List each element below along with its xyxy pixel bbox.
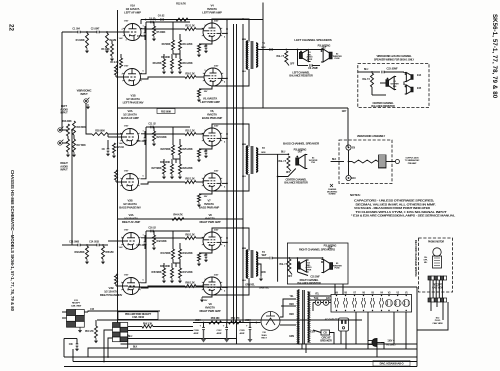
wire filament box drops to ac buses xyxy=(355,312,357,344)
wire V10 heater to T4 xyxy=(280,324,296,326)
resistor R51 170 xyxy=(228,321,241,324)
wire to output jack xyxy=(386,161,395,163)
vibrasonic input jack xyxy=(84,98,90,104)
capacitor C8 470 xyxy=(107,148,110,150)
wire V4 top cap xyxy=(211,20,213,24)
wire screen to bus lower xyxy=(222,182,227,184)
resistor grid stopper 1.2K upper xyxy=(185,237,196,240)
wire right input riser joins xyxy=(71,244,73,246)
svg-text:RIGHT PWR AMP: RIGHT PWR AMP xyxy=(200,220,221,224)
resistor R5 180K xyxy=(153,26,156,36)
wire speaker bus xyxy=(286,49,323,51)
resistor R41 560K xyxy=(172,249,175,259)
capacitor C30 xyxy=(76,343,79,345)
resistor R9 560K xyxy=(172,40,175,50)
svg-text:C11 .02: C11 .02 xyxy=(148,123,156,126)
resistor divider c xyxy=(179,164,182,174)
svg-text:GRN: GRN xyxy=(261,47,266,49)
svg-text:C2 .0047: C2 .0047 xyxy=(91,28,100,31)
svg-text:250V: 250V xyxy=(195,319,201,322)
svg-text:LEFT PWR AMP: LEFT PWR AMP xyxy=(202,11,222,15)
svg-text:C1 .004: C1 .004 xyxy=(72,28,80,31)
wire E13 leads xyxy=(62,311,67,313)
svg-text:RIGHT PHASE INV: RIGHT PHASE INV xyxy=(100,293,123,297)
box right channel speakers xyxy=(287,243,348,284)
svg-text:C16 .02: C16 .02 xyxy=(148,227,156,230)
wire E1 feed xyxy=(297,50,299,66)
svg-text:R2 2M: R2 2M xyxy=(110,39,117,42)
resistor power cathode upper xyxy=(199,250,212,253)
svg-text:TO VIBRASONIC: TO VIBRASONIC xyxy=(405,159,420,162)
svg-text:R23 560K: R23 560K xyxy=(160,148,170,151)
svg-text:FUSE: FUSE xyxy=(335,268,341,270)
resistor divider a xyxy=(163,268,166,278)
capacitor coupling C11 .02 xyxy=(150,126,152,129)
svg-text:BASS PHASE INV: BASS PHASE INV xyxy=(119,206,141,210)
svg-text:BAL 7.5: BAL 7.5 xyxy=(362,78,370,81)
svg-text:C23 .05MF: C23 .05MF xyxy=(386,68,398,71)
phono motor symbol xyxy=(433,248,441,256)
connector preamp power recept xyxy=(113,323,128,342)
sockets V3 V2 V1 twin triode xyxy=(386,300,393,307)
resistor R24 180K xyxy=(153,131,156,141)
capacitor coupling C16 .02 xyxy=(150,230,152,233)
wire inverter outputs xyxy=(173,262,180,264)
svg-text:R29 220K: R29 220K xyxy=(183,167,193,170)
terminal E9 xyxy=(346,145,351,150)
svg-text:BLK: BLK xyxy=(332,159,337,161)
resistor R1 180K xyxy=(86,33,89,48)
svg-text:22: 22 xyxy=(8,24,15,31)
svg-text:BALANCE RESISTOR: BALANCE RESISTOR xyxy=(284,181,308,184)
svg-text:BRN: BRN xyxy=(242,144,247,146)
svg-text:315V: 315V xyxy=(214,171,219,173)
svg-text:SPEAKER WIRING FOR SK56-1 ONLY: SPEAKER WIRING FOR SK56-1 ONLY xyxy=(374,59,415,62)
svg-text:SPKR: SPKR xyxy=(307,59,313,61)
svg-text:1.4V: 1.4V xyxy=(119,37,124,40)
resistor right balance 7.5 xyxy=(288,259,291,271)
power transformer T4 xyxy=(298,290,300,344)
svg-text:170V: 170V xyxy=(124,275,129,277)
svg-text:OUTPUT JACK: OUTPUT JACK xyxy=(405,157,419,160)
svg-text:LEFT AF AMP: LEFT AF AMP xyxy=(124,11,141,15)
svg-text:170V: 170V xyxy=(124,66,129,68)
svg-text:R17 500K: R17 500K xyxy=(77,145,87,147)
svg-text:CB: CB xyxy=(323,332,327,335)
wire plate to output transformer lower xyxy=(213,190,231,192)
wire inverter cathode to power grid xyxy=(141,182,186,184)
wire tweeters xyxy=(403,71,405,73)
box filament wiring xyxy=(331,295,412,313)
svg-text:AC OUTLET: AC OUTLET xyxy=(325,319,339,322)
jack right audio input xyxy=(58,140,64,146)
output jack circle xyxy=(395,160,399,164)
tube V1B 1/2 12AX7A left phase inv xyxy=(122,69,141,86)
capacitor secondary xyxy=(269,48,271,51)
wire plate to output transformer upper xyxy=(212,124,249,147)
svg-text:INPUT: INPUT xyxy=(60,111,68,115)
phono recept connector xyxy=(428,276,447,280)
svg-text:BALANCE RESISTOR: BALANCE RESISTOR xyxy=(297,282,321,285)
dashed box phono motor xyxy=(419,238,453,292)
capacitor C3 .0047 xyxy=(144,32,147,34)
svg-text:VOLTAGES - MEASURED FROM POINT: VOLTAGES - MEASURED FROM POINT INDICATED xyxy=(354,206,430,210)
svg-text:40MF: 40MF xyxy=(217,332,223,335)
svg-text:SCREW: SCREW xyxy=(329,194,336,196)
resistor R42 180K xyxy=(153,235,156,245)
svg-text:GRY: GRY xyxy=(342,111,347,113)
resistor R11 220K xyxy=(179,40,182,50)
svg-text:BLU: BLU xyxy=(242,280,246,282)
wire bottom bus y357 xyxy=(64,356,417,358)
svg-text:R68 1.2K: R68 1.2K xyxy=(185,282,195,285)
resistor power cathode upper xyxy=(199,146,212,149)
wire phase inv grid xyxy=(116,285,124,287)
wire bass junction to vibrasonic xyxy=(287,153,289,155)
wire plate to output transformer upper xyxy=(212,19,249,42)
svg-text:BLU: BLU xyxy=(128,336,133,338)
resistor phase inv grid xyxy=(115,274,118,284)
wire top B+ rail xyxy=(141,19,263,21)
tube V3A 1/2 12AX7A right AF amp xyxy=(121,233,140,250)
ground E13 xyxy=(79,328,81,331)
resistor divider b xyxy=(171,268,174,278)
svg-text:R45 680K: R45 680K xyxy=(151,271,161,274)
wire T4 primary down xyxy=(301,344,303,349)
dashed box vibrasonic assembly xyxy=(339,140,392,184)
resistor bass balance 7.5 xyxy=(287,156,290,168)
resistor grid stopper 1.2K upper xyxy=(185,133,196,136)
capacitor C13 .0068 xyxy=(77,244,79,247)
svg-text:BLK: BLK xyxy=(133,347,138,349)
wire vertical bus x118 xyxy=(117,10,119,323)
wire E12 to bus xyxy=(417,302,448,330)
svg-text:INPUT: INPUT xyxy=(80,92,88,96)
svg-text:R42 180K: R42 180K xyxy=(157,240,167,243)
svg-text:R47 220K: R47 220K xyxy=(183,271,193,274)
wire T3 secondary to right speakers xyxy=(257,257,269,259)
svg-text:R8 220K: R8 220K xyxy=(153,62,162,65)
svg-text:PHONO MOTOR: PHONO MOTOR xyxy=(428,242,444,244)
svg-text:BASS PWR AMP: BASS PWR AMP xyxy=(199,206,219,210)
svg-text:R50 1.2K: R50 1.2K xyxy=(185,73,195,76)
svg-text:BLU: BLU xyxy=(242,71,246,73)
jack left audio input xyxy=(58,127,64,133)
110V AC plug xyxy=(368,339,381,347)
capacitor C10 .0047 xyxy=(144,137,147,139)
tube V3B 1/2 12AX7A right phase inv xyxy=(121,278,140,295)
svg-text:VIBRASONIC ASSEMBLY: VIBRASONIC ASSEMBLY xyxy=(357,134,386,138)
capacitor C14 .0015 xyxy=(96,244,98,247)
vibrasonic drive spring coil xyxy=(352,160,378,163)
capacitor C2 .0047 xyxy=(96,31,98,34)
wire plug to buses xyxy=(381,343,384,350)
svg-text:R1 180K: R1 180K xyxy=(76,39,85,42)
svg-text:CAB. VIEW: CAB. VIEW xyxy=(71,304,82,307)
svg-text:CAPACITORS - UNLESS OTHERWISE: CAPACITORS - UNLESS OTHERWISE SPECIFIED, xyxy=(354,199,435,203)
wire phase inv grid xyxy=(116,76,124,78)
wire plug drop xyxy=(376,347,378,358)
svg-text:1.4V: 1.4V xyxy=(119,246,124,249)
speaker E5 tweeter xyxy=(321,260,332,273)
svg-text:BLU: BLU xyxy=(281,151,286,153)
resistor divider c xyxy=(179,268,182,278)
svg-text:1.4V: 1.4V xyxy=(119,142,124,145)
svg-text:BALANCE RESISTOR: BALANCE RESISTOR xyxy=(289,74,313,77)
right balance OFF arrow xyxy=(289,271,292,275)
resistor R2 2M xyxy=(106,33,109,48)
junction dots top rail xyxy=(145,19,147,21)
wire feedback line y108 to vibrasonic xyxy=(118,107,349,109)
svg-text:C19C: C19C xyxy=(217,330,223,332)
vibrasonic transducer coil xyxy=(379,155,387,168)
wire bottom-left corner risers xyxy=(63,344,65,357)
svg-text:260V: 260V xyxy=(245,319,251,322)
tube V10 5U4G rectifier xyxy=(261,312,280,331)
wire vertical bus x236.5 xyxy=(236,24,238,344)
connector E12 plug xyxy=(428,298,447,302)
terminal E10 xyxy=(346,175,351,180)
compression lamps E19 E20 xyxy=(315,300,321,306)
label diagram number xyxy=(373,361,410,367)
resistor grid stopper 1.2K lower xyxy=(185,76,196,79)
svg-text:FUSE: FUSE xyxy=(335,58,341,60)
speaker E14 tweeter xyxy=(405,73,413,82)
resistor R43 220K xyxy=(179,249,182,259)
wire T3 ground GRN xyxy=(257,264,261,276)
svg-text:BREAKER: BREAKER xyxy=(320,340,332,343)
svg-text:R33 280K: R33 280K xyxy=(74,251,84,254)
resistor R56 3.3K xyxy=(142,325,153,328)
wire plate coupling xyxy=(141,22,146,29)
wires preamp to bottom buses xyxy=(104,330,113,362)
svg-text:R54 4.7K: R54 4.7K xyxy=(85,330,94,333)
speaker E3 woofer xyxy=(296,155,308,169)
resistor power cathode upper xyxy=(199,41,212,44)
tube V1A 1/2 12AX7A left AF amp xyxy=(123,24,142,41)
resistor R20 560K vibrasonic feed xyxy=(92,133,108,136)
wire screen to bus lower xyxy=(222,77,227,79)
svg-text:R25 220K: R25 220K xyxy=(183,148,193,151)
wire T4 secondary YEL to heater box xyxy=(309,295,331,297)
wire E13 to preamp line y311 xyxy=(88,311,160,312)
svg-text:C19B: C19B xyxy=(194,330,200,332)
tube V4 6V6GTA left power amp xyxy=(202,23,222,41)
resistor R35 2M xyxy=(102,246,105,259)
svg-text:R5 180K: R5 180K xyxy=(157,31,166,34)
label chassis mounting screw xyxy=(330,184,333,187)
wire inverter plate to power grid xyxy=(141,29,186,74)
svg-text:RIGHT AF AMP: RIGHT AF AMP xyxy=(122,220,140,224)
svg-text:PRE-AMP: PRE-AMP xyxy=(408,162,417,165)
wire vertical supply bus x263 upper xyxy=(262,3,264,109)
resistor R17 500K xyxy=(67,139,70,152)
circuit breaker xyxy=(321,330,330,335)
wire screen to bus lower xyxy=(222,286,227,288)
svg-text:OFF: OFF xyxy=(288,276,293,278)
svg-text:LEFT PHASE INV: LEFT PHASE INV xyxy=(123,101,144,105)
speaker E15 tweeter xyxy=(405,85,413,94)
svg-text:C4 .02: C4 .02 xyxy=(158,15,165,18)
svg-text:BALANCE RESISTOR: BALANCE RESISTOR xyxy=(371,105,395,108)
resistor divider c xyxy=(179,59,182,69)
wire vertical B+ bus x243 xyxy=(242,24,244,323)
wire E4 C,1MF xyxy=(297,258,299,272)
svg-text:BRN: BRN xyxy=(242,248,247,250)
svg-text:C14 .0015: C14 .0015 xyxy=(89,241,100,244)
svg-text:R51 170: R51 170 xyxy=(231,317,240,320)
capacitor right secondary xyxy=(269,257,271,260)
svg-text:170V: 170V xyxy=(124,126,129,128)
wire bottom bus y366.5 xyxy=(64,366,417,368)
wire vertical screen bus x227 xyxy=(226,20,228,323)
svg-text:R44 4.7K: R44 4.7K xyxy=(173,214,183,217)
speaker E1 mid-audio xyxy=(300,50,311,62)
svg-text:R10 220K: R10 220K xyxy=(183,62,193,65)
wire plate to output transformer lower xyxy=(213,85,231,87)
svg-text:RECEPT: RECEPT xyxy=(433,284,443,287)
svg-text:170V: 170V xyxy=(124,171,129,173)
box label pre amp pwr recept xyxy=(118,312,158,320)
svg-text:R13 1.2K: R13 1.2K xyxy=(185,25,195,28)
wire screen to bus upper xyxy=(222,241,227,243)
svg-text:DOT: DOT xyxy=(298,152,303,154)
svg-text:WHT: WHT xyxy=(262,255,268,257)
svg-text:CAB. VIEW: CAB. VIEW xyxy=(432,322,443,325)
wire vibrasonic input to grid xyxy=(86,103,92,134)
svg-text:BASS CHANNEL SPEAKER: BASS CHANNEL SPEAKER xyxy=(283,142,320,146)
resistor phase inv grid xyxy=(115,170,118,180)
resistor SK56 balance 7.5 xyxy=(371,73,374,87)
wire vibrasonic internal xyxy=(348,150,350,161)
socket heaters V9-V4 xyxy=(334,298,335,308)
svg-text:R4 2.2K: R4 2.2K xyxy=(110,61,118,64)
svg-text:CAB. VIEW: CAB. VIEW xyxy=(132,316,145,319)
svg-text:GRN: GRN xyxy=(261,272,266,274)
svg-text:RECT: RECT xyxy=(261,338,267,340)
svg-text:R6 100K: R6 100K xyxy=(161,56,170,59)
svg-text:NOTES:: NOTES: xyxy=(350,193,361,197)
svg-text:R63 1.2K: R63 1.2K xyxy=(185,234,195,237)
resistor grid stopper 1.2K lower xyxy=(185,285,196,288)
wire screen to bus upper xyxy=(222,137,227,139)
svg-text:R21 1K: R21 1K xyxy=(117,146,125,149)
capacitor C1 .004 xyxy=(77,31,79,34)
svg-text:* E19 & E20 ARE COMPRESSION LA: * E19 & E20 ARE COMPRESSION LAMPS - SEE … xyxy=(351,214,456,218)
capacitor C23 .05MF xyxy=(372,71,380,73)
svg-text:CHASSIS HS-868 SCHEMATIC—MODEL: CHASSIS HS-868 SCHEMATIC—MODELS SK56-1, … xyxy=(10,170,15,312)
svg-text:C19D: C19D xyxy=(240,330,246,332)
wire left input riser x62 xyxy=(61,32,63,130)
capacitor power cathode upper xyxy=(205,254,208,256)
resistor R54 4.7K xyxy=(95,326,98,338)
wire inverter outputs xyxy=(173,53,180,55)
wire lamps to box xyxy=(321,302,323,304)
resistor power cathode lower xyxy=(202,295,212,297)
svg-text:BASS AF AMP: BASS AF AMP xyxy=(121,116,139,120)
svg-text:315V: 315V xyxy=(214,21,219,23)
wire ac bus y344 xyxy=(121,343,418,345)
wire grid input xyxy=(108,136,124,138)
wire GRN/YEL chassis line y287 xyxy=(128,286,417,288)
svg-text:BAL 7.5: BAL 7.5 xyxy=(279,160,287,163)
svg-text:315V: 315V xyxy=(214,275,219,277)
svg-text:GRN/YEL: GRN/YEL xyxy=(245,284,255,287)
svg-text:170V: 170V xyxy=(124,21,129,23)
resistor left balance 7.5 xyxy=(285,51,288,62)
wire phase inv grid xyxy=(116,181,124,183)
svg-text:RECORD CHANGER WIRING: RECORD CHANGER WIRING xyxy=(414,240,418,277)
svg-text:R62 1.2K: R62 1.2K xyxy=(185,178,195,181)
resistor divider a xyxy=(163,164,166,174)
svg-text:AC ONLY: AC ONLY xyxy=(386,343,396,346)
svg-text:R18 500K: R18 500K xyxy=(77,127,87,129)
wire grid input xyxy=(108,31,124,33)
svg-text:INPUT: INPUT xyxy=(60,168,68,172)
ac outlet xyxy=(339,318,349,331)
wire BLK into vibrasonic xyxy=(287,161,289,163)
wire ac bus y349 xyxy=(130,348,417,350)
tube V2A 1/2 12AX7A bass AF amp xyxy=(120,129,139,146)
svg-text:R16 200K: R16 200K xyxy=(62,121,72,123)
resistor R23 560K xyxy=(172,145,175,155)
svg-text:R27 680K: R27 680K xyxy=(151,167,161,170)
capacitor C4 .02 top xyxy=(160,18,162,21)
wire woofer feed xyxy=(380,82,386,84)
capacitor power cathode upper xyxy=(205,150,208,152)
wire input jacks xyxy=(62,129,68,131)
wire B+ line 250V xyxy=(193,322,261,324)
resistor divider b xyxy=(171,164,174,174)
capacitor C6 .25MF xyxy=(298,65,309,67)
wire SK56 input xyxy=(358,71,372,73)
output transformer T1 xyxy=(246,41,248,69)
svg-text:R43 220K: R43 220K xyxy=(183,252,193,255)
output transformer T2 xyxy=(246,146,248,174)
wire breaker connections xyxy=(313,330,321,333)
svg-text:TO CHASSIS WITH A VTVM, ± 10%: TO CHASSIS WITH A VTVM, ± 10% NO-SIGNAL … xyxy=(356,210,448,214)
wire grid input xyxy=(108,240,124,242)
svg-text:RED: RED xyxy=(289,314,294,316)
resistor power cathode lower xyxy=(199,86,212,89)
svg-text:40MF: 40MF xyxy=(240,332,246,335)
svg-text:PLUG: PLUG xyxy=(435,320,441,322)
svg-text:R20 560K: R20 560K xyxy=(95,130,105,133)
connector E13 recept xyxy=(67,310,85,328)
resistor R4 2.2K xyxy=(120,58,123,68)
capacitor power cathode upper xyxy=(205,45,208,47)
svg-text:GRN: GRN xyxy=(261,152,266,154)
wires preamp to right xyxy=(128,330,193,332)
svg-text:C13 .0068: C13 .0068 xyxy=(69,241,80,244)
speaker E3 woofer SK56 xyxy=(386,77,396,90)
svg-text:BAL 7.5: BAL 7.5 xyxy=(277,55,285,58)
capacitor C15 .0047 xyxy=(144,241,147,243)
wire bus down right speakers xyxy=(277,154,279,281)
svg-text:GRN: GRN xyxy=(289,336,294,338)
wire inverter plate to power grid xyxy=(141,238,186,283)
svg-text:315V: 315V xyxy=(214,230,219,232)
wire plate coupling xyxy=(141,231,146,238)
left balance pot OFF arrow xyxy=(286,62,289,66)
svg-text:R41 560K: R41 560K xyxy=(160,252,170,255)
wire inverter cathode to power grid xyxy=(141,77,186,79)
svg-text:R26 100K: R26 100K xyxy=(160,161,170,164)
wire T1 secondary to speakers xyxy=(257,49,286,51)
wire inverter plate to power grid xyxy=(141,134,186,179)
svg-text:BAL 7.5: BAL 7.5 xyxy=(280,263,288,266)
svg-text:SPKR: SPKR xyxy=(306,269,312,271)
